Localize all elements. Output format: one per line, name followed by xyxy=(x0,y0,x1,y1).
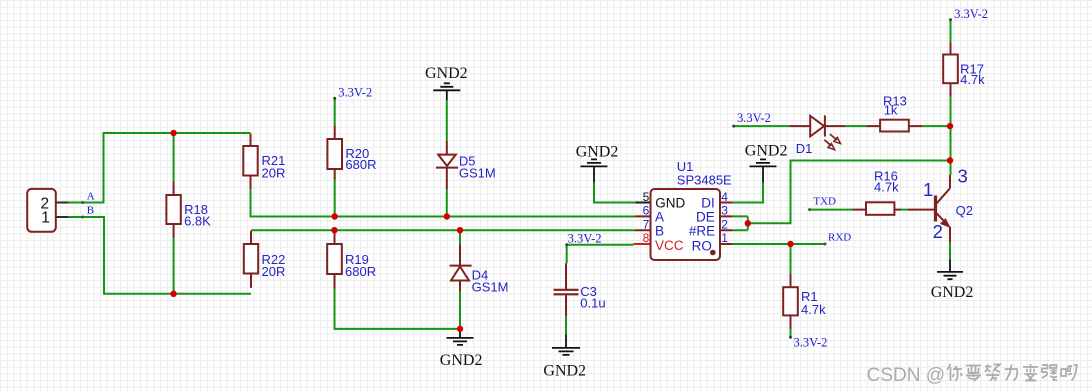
svg-text:GND: GND xyxy=(655,196,685,211)
svg-text:A: A xyxy=(655,210,664,225)
svg-text:RO: RO xyxy=(692,238,712,253)
svg-text:4.7k: 4.7k xyxy=(874,179,899,194)
svg-text:20R: 20R xyxy=(262,264,286,279)
svg-text:Q2: Q2 xyxy=(956,203,973,218)
svg-text:680R: 680R xyxy=(345,264,376,279)
svg-text:1k: 1k xyxy=(884,102,898,117)
svg-text:5: 5 xyxy=(643,190,650,204)
svg-text:B: B xyxy=(655,223,664,238)
svg-text:CSDN @: CSDN @ xyxy=(867,365,945,386)
svg-text:20R: 20R xyxy=(262,165,286,180)
svg-text:2: 2 xyxy=(721,217,728,231)
svg-text:GND2: GND2 xyxy=(745,142,788,159)
svg-text:4.7k: 4.7k xyxy=(960,72,985,87)
svg-text:RXD: RXD xyxy=(828,232,851,244)
svg-text:4.7k: 4.7k xyxy=(801,302,826,317)
svg-text:1: 1 xyxy=(923,179,933,200)
svg-text:3.3V-2: 3.3V-2 xyxy=(954,7,988,21)
svg-text:3.3V-2: 3.3V-2 xyxy=(794,336,828,350)
svg-text:VCC: VCC xyxy=(655,238,684,253)
svg-text:3: 3 xyxy=(958,166,968,187)
svg-text:GND2: GND2 xyxy=(440,352,483,369)
svg-text:1: 1 xyxy=(721,231,728,245)
svg-text:3.3V-2: 3.3V-2 xyxy=(338,86,372,100)
svg-text:GND2: GND2 xyxy=(576,144,619,161)
svg-text:0.1u: 0.1u xyxy=(580,296,605,311)
svg-text:2: 2 xyxy=(933,221,943,242)
svg-text:B: B xyxy=(87,204,94,216)
svg-text:A: A xyxy=(87,191,95,203)
svg-text:6.8K: 6.8K xyxy=(184,214,211,229)
svg-text:TXD: TXD xyxy=(813,196,836,208)
svg-text:GND2: GND2 xyxy=(931,284,974,301)
svg-text:6: 6 xyxy=(643,204,650,218)
svg-text:7: 7 xyxy=(643,217,650,231)
svg-text:DI: DI xyxy=(701,196,715,211)
svg-text:GS1M: GS1M xyxy=(459,165,496,180)
svg-text:D1: D1 xyxy=(796,141,813,156)
svg-text:3.3V-2: 3.3V-2 xyxy=(568,232,602,246)
svg-text:DE: DE xyxy=(696,210,715,225)
svg-text:#RE: #RE xyxy=(689,223,715,238)
svg-text:680R: 680R xyxy=(345,157,376,172)
svg-text:3: 3 xyxy=(721,204,728,218)
svg-text:1: 1 xyxy=(41,210,50,227)
svg-text:3.3V-2: 3.3V-2 xyxy=(737,111,771,125)
svg-text:GND2: GND2 xyxy=(543,362,586,379)
svg-text:GS1M: GS1M xyxy=(472,280,509,295)
svg-text:SP3485E: SP3485E xyxy=(677,173,732,188)
svg-text:GND2: GND2 xyxy=(425,65,468,82)
svg-text:4: 4 xyxy=(721,190,728,204)
svg-text:8: 8 xyxy=(643,231,650,245)
